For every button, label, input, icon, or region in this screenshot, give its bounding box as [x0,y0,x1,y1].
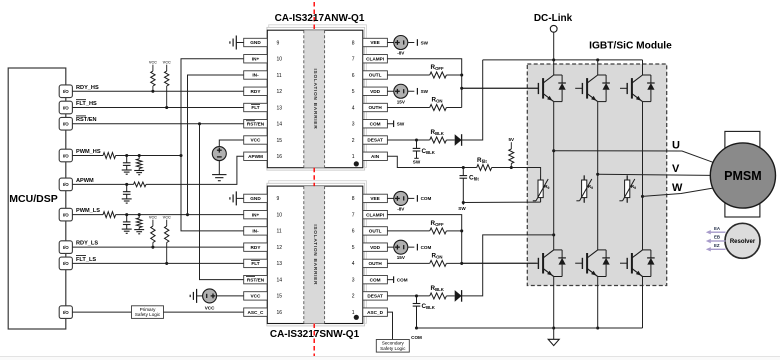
svg-text:CBLK: CBLK [422,148,436,155]
wire CLAMPI (U1) [387,59,461,108]
svg-text:-8V: -8V [397,206,405,211]
svg-text:VEE: VEE [370,196,379,201]
IC U1 CA-IS3217ANW-Q1 body [267,30,363,168]
svg-text:VDD: VDD [370,89,381,94]
svg-text:5: 5 [352,245,355,251]
svg-text:VCC: VCC [163,61,171,65]
svg-text:11: 11 [277,73,282,79]
net label RDY_HS [76,85,99,91]
ground [122,199,132,203]
resistor PWM_HS series [103,153,116,159]
wire R_OFF to gate bar (U1) [446,73,463,89]
pin 10 IN+ (U1) [244,55,283,63]
wire leg V mid [596,102,599,250]
wire PWM_HS to IN+ high-side [181,59,244,156]
svg-text:W: W [672,182,683,194]
svg-text:FLT_LS: FLT_LS [76,257,96,263]
pin 15 VCC (U2) [244,292,283,300]
pin 11 IN- (U2) [244,227,282,235]
capacitor C_BLK (U1) [413,140,436,165]
wire R_OFF to gate bar (U2) [446,229,463,265]
svg-text:15: 15 [277,294,283,300]
svg-text:PWM_HS: PWM_HS [76,149,101,155]
wire DC-Link [553,32,555,60]
pin 5 VDD (U1) [352,87,388,95]
wire phase V [598,174,711,175]
svg-text:9: 9 [277,196,280,202]
wire leg V collector [597,60,599,75]
transistor Q4 IGBT (V bottom) [575,250,610,277]
svg-text:10: 10 [277,57,283,63]
resistor PWM_HS shunt [136,156,142,171]
pin 1 AIN (U1) [352,152,388,160]
resolver output EZ [706,243,726,252]
svg-text:1: 1 [352,310,355,316]
label COM [411,335,422,340]
pin 1 indicator (U2) [354,315,359,320]
wire VCC low-side [217,295,244,297]
I/O port APWM [59,178,72,191]
pin 12 RDY (U2) [244,243,283,251]
ground [230,36,244,50]
wire OUTH (U2) [387,262,429,264]
svg-text:IN+: IN+ [252,56,260,61]
pin 8 VEE (U1) [352,38,388,46]
transistor Q2 IGBT (U bottom) [462,250,566,277]
capacitor APWM filter [123,184,131,199]
label 15V [397,99,406,104]
resistor R_BLK (U1) [430,129,447,143]
svg-text:PMSM: PMSM [724,169,762,183]
resistor R_BLK (U2) [430,285,447,299]
svg-text:CLAMPI: CLAMPI [366,212,384,217]
svg-text:VCC: VCC [251,294,262,299]
svg-text:RBLK: RBLK [431,285,445,292]
wire leg U emitter [552,277,555,330]
svg-text:-8V: -8V [397,51,405,56]
svg-text:13: 13 [277,261,283,267]
wire R_BLK to diode (U2) [446,295,454,297]
svg-text:RON: RON [432,252,443,259]
svg-text:Safety Logic: Safety Logic [135,312,161,317]
wire CLAMPI (U2) [387,215,461,264]
source VCC low-side [203,289,217,311]
svg-text:MCU/DSP: MCU/DSP [9,193,57,205]
pin 16 APWM (U1) [244,152,283,160]
svg-text:ISOLATION BARRIER: ISOLATION BARRIER [312,224,318,285]
svg-text:9: 9 [277,40,280,46]
ground [548,328,559,346]
wire FLT_LS [72,262,243,264]
pin 15 VCC (U1) [244,136,283,144]
resistor R_ON (U1) [430,97,447,111]
wire FLT_HS [72,107,243,109]
svg-text:VCC: VCC [251,138,262,143]
pin 4 OUTH (U2) [352,259,388,267]
svg-text:CA-IS3217ANW-Q1: CA-IS3217ANW-Q1 [275,13,365,24]
label -8V [397,51,405,56]
svg-text:COM: COM [397,277,408,282]
svg-text:RDY_HS: RDY_HS [76,85,99,91]
svg-text:16: 16 [277,310,283,316]
node W [672,182,683,194]
transistor Q3 IGBT (V top) [575,75,610,102]
label -8V [397,206,405,211]
wire R_filt to thermistor [492,167,512,169]
resistor pull-up FLT_LS [163,216,171,265]
transistor Q6 IGBT (W bottom) [620,250,655,277]
terminal COM [417,244,431,251]
source VCC high-side [212,147,226,175]
svg-text:I/O: I/O [63,153,69,158]
svg-text:PWM_LS: PWM_LS [76,208,100,214]
pin 1 ASC_D (U2) [352,308,388,316]
capacitor C_filt [460,168,480,203]
IC U1 CA-IS3217ANW-Q1 stacked outline [267,25,367,170]
DC-Link label [534,13,573,24]
wire RST/EN [72,123,243,125]
wire thermistor return SW [458,201,540,211]
svg-text:RDY: RDY [251,89,262,94]
svg-text:CA-IS3217SNW-Q1: CA-IS3217SNW-Q1 [270,329,360,340]
svg-text:4: 4 [352,105,355,111]
svg-text:ISOLATION BARRIER: ISOLATION BARRIER [312,69,318,130]
DC-Link terminal [550,25,557,32]
svg-text:VCC: VCC [149,216,157,220]
svg-text:EA: EA [714,226,721,231]
svg-text:ROFF: ROFF [431,220,445,227]
wire DC+ rail [483,58,643,61]
transistor Q5 IGBT (W top) [620,75,655,102]
MCU/DSP block [8,68,66,329]
wire COM (U1) [387,123,393,125]
terminal SW [417,88,428,95]
wire VEE (U1) [387,42,394,44]
source VDD 15V (U1) [394,84,415,98]
thermistor R_theta phase W [619,175,636,203]
wire DESAT (U1) [387,138,429,141]
wire R_ON to gate bar (U1) [446,107,461,109]
wire leg W collector [642,60,644,75]
svg-text:Secondary: Secondary [382,341,405,346]
capacitor PWM_LS filter [123,215,131,229]
source VEE -8V (U2) [394,191,415,205]
wire gate drive high-side [462,87,539,89]
svg-text:FLT: FLT [251,261,259,266]
pin 3 COM (U1) [352,120,388,128]
source VDD 15V (U2) [394,240,415,254]
wire IN- high-side to PWM_LS [188,75,244,215]
resistor R_filt [477,157,492,171]
svg-text:IN-: IN- [252,73,259,78]
svg-text:RST/EN: RST/EN [76,117,97,123]
wire COM (U2) [387,279,393,281]
wire to VCC source low-side [197,295,203,297]
pin 4 OUTH (U1) [352,103,388,111]
svg-text:COM: COM [370,121,381,126]
svg-text:RDY_LS: RDY_LS [76,241,98,247]
wire COM rail [415,326,643,329]
svg-text:OUTL: OUTL [369,229,382,234]
I/O port RST/EN [59,117,72,130]
wire ASC_C right [164,311,244,313]
svg-text:VEE: VEE [370,40,379,45]
svg-text:13: 13 [277,105,283,111]
red isolation axis (middle) [313,168,315,186]
svg-text:I/O: I/O [63,89,69,94]
svg-text:COM: COM [370,277,381,282]
wire PWM_HS to IN- low-side [181,156,244,231]
svg-text:7: 7 [352,57,355,63]
svg-text:I/O: I/O [63,245,69,250]
ground [134,171,144,175]
svg-text:IN-: IN- [252,229,259,234]
wire VDD (U1) [387,90,394,92]
svg-text:SW: SW [458,206,466,211]
svg-text:14: 14 [277,277,283,283]
wire OUTL (U1) [387,74,429,76]
wire DESAT to DC rail (U1) [462,60,483,140]
svg-text:3: 3 [352,277,355,283]
svg-text:16: 16 [277,154,283,160]
resistor R_ON (U2) [430,252,447,266]
capacitor PWM_HS filter [123,156,131,171]
red isolation axis (top) [313,2,315,30]
svg-text:Rfilt: Rfilt [477,157,487,164]
wire PWM_HS segment [72,155,103,157]
I/O port RDY_LS [59,241,72,254]
pin 9 GND (U2) [244,194,280,202]
wire APWM to pin [146,156,244,184]
ground [134,230,144,234]
svg-text:RST/EN: RST/EN [247,121,265,126]
svg-text:RBLK: RBLK [431,129,445,136]
I/O port PWM_HS [59,149,72,162]
MCU/DSP label [9,193,57,205]
pin 6 OUTL (U1) [352,71,388,79]
wire AIN (U1) [387,156,512,169]
resistor pull-up RDY_LS [149,216,157,249]
svg-text:CBLK: CBLK [422,303,436,310]
pin 10 IN+ (U2) [244,210,283,218]
net label APWM [76,178,94,184]
wire OUTH (U1) [387,107,429,109]
svg-text:10: 10 [277,212,283,218]
svg-text:14: 14 [277,122,283,128]
I/O port PWM_LS [59,208,72,221]
svg-text:I/O: I/O [63,182,69,187]
secondary safety logic block [376,340,409,353]
IGBT/SiC module label [589,40,672,51]
svg-text:COM: COM [421,245,432,250]
wire leg U mid [552,102,555,250]
net label FLT_HS [76,100,97,107]
ground [122,170,132,174]
IC U1 title [275,13,365,24]
resistor 5V pull-up [508,137,515,168]
terminal SW [417,39,428,46]
svg-text:3: 3 [352,122,355,128]
wire leg W emitter [642,277,644,329]
resistor APWM series [134,182,147,187]
wire R_BLK to diode (U1) [446,139,454,141]
svg-text:6: 6 [352,73,355,79]
svg-text:1: 1 [352,154,355,160]
wire phase U [554,151,713,163]
wire phase W [643,188,714,196]
pin 8 VEE (U2) [352,194,388,202]
svg-text:Cfilt: Cfilt [469,175,479,182]
svg-text:SW: SW [413,160,421,165]
svg-text:COM: COM [421,196,432,201]
svg-text:I/O: I/O [63,261,69,266]
I/O port FLT_LS [59,257,72,270]
svg-text:I/O: I/O [63,122,69,127]
pin 9 GND (U1) [244,38,280,46]
svg-text:GND: GND [250,196,261,201]
svg-text:8: 8 [352,40,355,46]
pin 16 ASC_C (U2) [244,308,283,316]
pin 6 OUTL (U2) [352,227,388,235]
svg-text:15V: 15V [397,255,406,260]
svg-text:Safety Logic: Safety Logic [380,346,406,351]
svg-text:APWM: APWM [248,154,263,159]
svg-text:CLAMPI: CLAMPI [366,56,384,61]
capacitor C_BLK (U2) [413,296,436,328]
svg-text:IN+: IN+ [252,212,260,217]
wire leg W mid [641,102,644,250]
wire ASC_D (U2) [387,312,392,339]
terminal COM [417,195,431,202]
svg-text:6: 6 [352,229,355,235]
wire APWM segment [72,183,133,186]
svg-text:I/O: I/O [63,212,69,217]
wire ASC_C left [72,311,131,313]
svg-text:4: 4 [352,261,355,267]
pin 5 VDD (U2) [352,243,388,251]
svg-text:FLT_HS: FLT_HS [76,101,97,107]
pin 2 DESAT (U2) [352,292,388,300]
svg-text:OUTH: OUTH [368,261,382,266]
svg-text:15: 15 [277,138,283,144]
I/O port ASC [59,306,72,319]
svg-text:11: 11 [277,229,282,235]
pin 1 indicator (U1) [354,161,359,166]
IC U2 CA-IS3217SNW-Q1 stacked outline [267,181,367,326]
pin 14 RST/EN (U1) [244,120,283,128]
wire DESAT (U2) [387,294,429,297]
wire DESAT to phase node (U2) [462,233,556,296]
IC U2 CA-IS3217SNW-Q1 body [267,186,363,323]
IGBT/SiC module outline [527,64,666,286]
wire VDD (U2) [387,246,394,248]
resolver output EA [706,226,726,235]
svg-text:VCC: VCC [205,306,215,311]
svg-text:I/O: I/O [63,310,69,315]
resistor R_OFF (U1) [430,64,447,78]
ground [190,289,196,303]
I/O port FLT_HS [59,101,72,114]
pin 7 CLAMPI (U2) [352,210,388,218]
wire to thermistor R_theta [511,168,540,176]
terminal COM [394,276,408,283]
diode DESAT (U1) [455,134,462,146]
svg-text:Resolver: Resolver [730,239,756,245]
svg-text:RON: RON [432,97,443,104]
wire PWM_HS segment 2 [116,154,183,157]
svg-text:DESAT: DESAT [367,294,383,299]
svg-text:7: 7 [352,212,355,218]
resistor pull-up FLT_HS [163,61,171,110]
svg-text:V: V [672,163,680,175]
I/O port RDY_HS [59,85,72,98]
pin 11 IN- (U1) [244,71,282,79]
page edge [0,357,780,360]
resistor pull-up RDY_HS [149,61,157,93]
IC U1 CA-IS3217ANW-Q1 isolation barrier [304,30,325,168]
pin 13 FLT (U1) [244,103,283,111]
net label RDY_LS [76,241,98,247]
wire PWM_LS segment 2 [116,213,244,216]
thermistor R_theta phase U [533,176,550,203]
svg-text:SW: SW [421,89,429,94]
pin 2 DESAT (U1) [352,136,388,144]
svg-text:12: 12 [277,89,283,95]
svg-text:FLT: FLT [251,105,259,110]
IC U2 CA-IS3217SNW-Q1 isolation barrier [304,186,325,323]
ground [230,191,244,205]
svg-text:RST/EN: RST/EN [247,277,265,282]
svg-text:COM: COM [411,335,422,340]
svg-text:ASC_C: ASC_C [248,310,265,315]
motor PMSM [710,143,775,208]
wire PWM_LS segment [72,214,103,216]
primary safety logic block [132,306,164,319]
wire leg U collector [553,60,555,75]
svg-text:RDY: RDY [251,245,262,250]
ground [122,229,132,233]
svg-text:5V: 5V [508,137,515,142]
svg-text:ASC_D: ASC_D [367,310,384,315]
svg-text:SW: SW [397,122,405,127]
svg-text:12: 12 [277,245,283,251]
svg-text:EB: EB [714,235,720,240]
svg-text:EZ: EZ [714,243,720,248]
svg-text:OUTL: OUTL [369,73,382,78]
wire VEE (U2) [387,197,394,199]
svg-text:OUTH: OUTH [368,105,382,110]
svg-text:ROFF: ROFF [431,64,445,71]
net label PWM_HS [76,149,101,155]
wire gate drive low-side [446,262,536,264]
svg-text:GND: GND [250,40,261,45]
pin 13 FLT (U2) [244,259,283,267]
svg-text:5: 5 [352,89,355,95]
svg-text:DESAT: DESAT [367,138,383,143]
svg-text:IGBT/SiC Module: IGBT/SiC Module [589,40,672,51]
svg-text:15V: 15V [397,99,406,104]
pin 12 RDY (U1) [244,87,283,95]
PMSM shaft frame top [725,131,760,155]
wire VCC high-side [219,140,243,147]
resolver [725,223,760,258]
svg-text:AIN: AIN [371,154,380,159]
wire RDY_HS [72,90,243,92]
net label PWM_LS [76,208,100,214]
PMSM shaft frame bottom [725,196,760,217]
svg-text:I/O: I/O [63,105,69,110]
pin 7 CLAMPI (U1) [352,55,388,63]
